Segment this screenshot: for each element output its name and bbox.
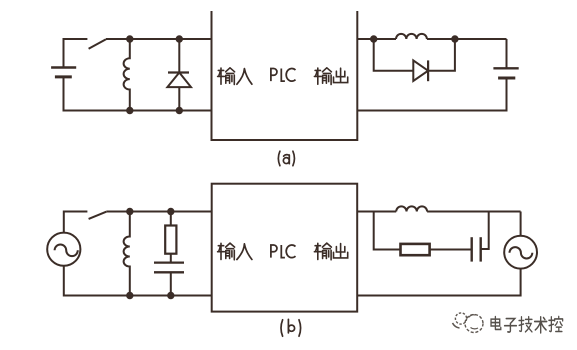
battery BT2 — [493, 68, 518, 78]
wire — [481, 212, 489, 250]
node: junction dots circuit a right — [370, 35, 459, 42]
capacitor C2 — [472, 237, 481, 261]
wire — [506, 39, 508, 68]
wire — [106, 211, 211, 213]
wire — [357, 211, 520, 213]
wire — [357, 78, 506, 111]
wire — [64, 77, 212, 111]
inductor L4 — [396, 206, 427, 211]
node: junction dots circuit b left — [126, 208, 174, 299]
wire — [357, 38, 506, 40]
battery BT1 — [51, 68, 76, 77]
wire — [374, 39, 414, 71]
watermark logo icon — [453, 313, 484, 333]
watermark text 电子技术控 — [491, 316, 564, 334]
wire — [106, 38, 212, 40]
wire — [64, 39, 88, 68]
inductor L2 — [396, 34, 427, 39]
diode VD2 — [413, 60, 428, 81]
capacitor C1 — [154, 254, 184, 296]
wire — [520, 212, 522, 236]
diode VD1 — [167, 39, 191, 111]
wire — [64, 212, 88, 233]
inductor L1 — [124, 39, 130, 111]
inductor L3 — [124, 212, 130, 296]
wire — [357, 269, 520, 296]
AC source G2 — [504, 236, 537, 269]
node: junction dots circuit a left — [126, 35, 183, 114]
wire — [430, 249, 472, 251]
AC source G1 — [47, 233, 80, 266]
PLC box (b) — [212, 184, 358, 312]
PLC box (a) — [212, 11, 358, 140]
label (b) — [281, 319, 301, 336]
label 输入 PLC 输出 (a) — [218, 68, 348, 85]
label 输入 PLC 输出 (b) — [218, 243, 348, 260]
wire — [374, 212, 401, 250]
switch S2 — [89, 212, 107, 219]
wire — [428, 39, 455, 71]
label (a) — [278, 151, 294, 166]
resistor R2 — [401, 244, 430, 255]
resistor R1 — [165, 212, 176, 254]
switch S1 — [89, 39, 106, 49]
wire — [64, 266, 212, 296]
